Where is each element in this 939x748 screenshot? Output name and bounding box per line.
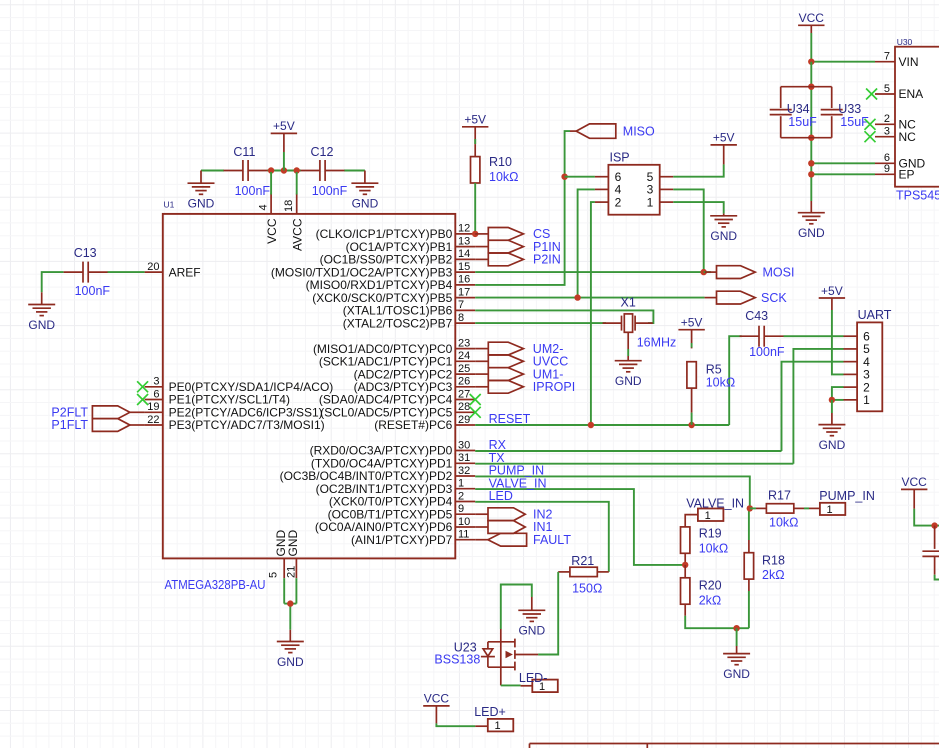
- U1 pin 3 PE0(: [137, 376, 333, 394]
- ground C11: [188, 171, 215, 211]
- port UM2-: [475, 342, 563, 356]
- wire R21 to drain: [538, 572, 570, 655]
- wire source to LED-: [501, 684, 521, 686]
- wire RESET: [475, 412, 729, 426]
- port FAULT: [475, 533, 571, 547]
- junction cap top: [808, 84, 814, 90]
- capacitor U33: [821, 87, 869, 138]
- svg-text:GND: GND: [286, 530, 300, 557]
- wire ISP1 to ground: [673, 202, 723, 214]
- svg-text:5: 5: [268, 572, 280, 578]
- wire VALVE_IN: [475, 476, 685, 565]
- power VCC (right): [901, 475, 927, 509]
- svg-text:1: 1: [827, 504, 833, 516]
- svg-text:3: 3: [884, 126, 890, 138]
- U1 pin 31 PD1: [311, 452, 475, 470]
- port MISO: [570, 124, 655, 138]
- wire +5V rail to C11/C12: [201, 170, 365, 172]
- port IN1: [475, 520, 552, 534]
- frame next sheet: [530, 744, 939, 748]
- svg-text:VCC: VCC: [424, 692, 450, 706]
- svg-text:P1FLT: P1FLT: [51, 418, 88, 432]
- U1 pin 28 PC5: [320, 401, 475, 419]
- ground UART: [818, 425, 845, 452]
- svg-text:R21: R21: [571, 554, 594, 568]
- IC U1 ATMEGA328PB-AU: [137, 194, 475, 593]
- svg-text:2: 2: [458, 490, 464, 502]
- svg-text:R10: R10: [489, 155, 512, 169]
- svg-text:26: 26: [458, 376, 470, 388]
- connector ISP: [595, 151, 673, 215]
- svg-text:22: 22: [147, 414, 159, 426]
- svg-text:GND: GND: [352, 197, 379, 211]
- wire EP pin9: [811, 173, 875, 175]
- wire UART5 to TX: [793, 349, 843, 464]
- junction MISO/ISP6: [561, 174, 567, 180]
- svg-text:GND: GND: [277, 655, 304, 669]
- svg-text:GND: GND: [723, 667, 750, 681]
- svg-text:13: 13: [458, 235, 470, 247]
- svg-text:VCC: VCC: [902, 475, 928, 489]
- wire R21 right: [597, 571, 609, 573]
- wire PB7 to crystal: [475, 322, 606, 324]
- svg-text:15uF: 15uF: [840, 115, 869, 129]
- transistor U23 BSS138: [434, 629, 538, 685]
- U1 pin 27 PC4: [319, 388, 475, 406]
- testpoint LED+: [474, 705, 513, 732]
- svg-text:NC: NC: [899, 130, 917, 144]
- junction U1 ground: [287, 600, 293, 606]
- wire ISP6: [565, 176, 595, 178]
- svg-text:20: 20: [147, 261, 159, 273]
- capacitor C43: [740, 309, 785, 359]
- testpoint PUMP_IN: [819, 489, 875, 516]
- wire MOSI stub: [704, 271, 711, 273]
- U1 pin 17 PB5: [312, 286, 475, 304]
- U1 pin 20 AREF: [145, 261, 201, 279]
- capacitor C11: [224, 145, 271, 198]
- svg-text:VALVE_IN: VALVE_IN: [686, 496, 744, 510]
- U1 pin 9 PD5: [328, 503, 476, 521]
- U1 pin 8 PB7: [343, 312, 475, 330]
- U1 pin 1 PD3: [316, 478, 476, 496]
- svg-text:17: 17: [458, 286, 470, 298]
- svg-text:C11: C11: [233, 145, 255, 159]
- svg-text:GND: GND: [819, 438, 846, 452]
- svg-text:LED: LED: [489, 489, 513, 503]
- wire R19 to R20: [684, 553, 686, 565]
- port P2IN: [475, 253, 561, 267]
- wire C43 to UART6: [784, 335, 844, 337]
- ground C12: [351, 171, 378, 211]
- svg-text:VIN: VIN: [899, 55, 919, 69]
- U1 pin 2 PD4: [329, 490, 475, 508]
- no-connect X pin27: [470, 394, 481, 405]
- svg-text:100nF: 100nF: [749, 345, 785, 359]
- svg-text:16: 16: [458, 274, 470, 286]
- junction RESET/R5: [688, 422, 694, 428]
- svg-text:UART: UART: [858, 308, 892, 322]
- svg-text:1: 1: [863, 393, 870, 407]
- svg-text:7: 7: [458, 299, 464, 311]
- port IPROPI: [475, 380, 575, 394]
- resistor R17: [750, 489, 799, 530]
- svg-text:MISO: MISO: [623, 124, 655, 138]
- U1 pin 19 PE2(: [145, 401, 323, 419]
- wire PUMP_IN: [475, 464, 750, 509]
- svg-text:3: 3: [153, 376, 159, 388]
- wire ISP2 to RESET: [591, 202, 595, 425]
- resistor R20: [681, 565, 722, 608]
- svg-text:VCC: VCC: [799, 11, 825, 25]
- wire TX: [475, 451, 793, 465]
- U1 pin 30 PD0: [310, 439, 476, 457]
- wire RESET to C43: [729, 336, 742, 425]
- svg-text:100nF: 100nF: [75, 284, 111, 298]
- svg-text:FAULT: FAULT: [533, 533, 571, 547]
- ground U23: [518, 610, 545, 637]
- svg-text:29: 29: [458, 414, 470, 426]
- svg-text:R20: R20: [699, 579, 722, 593]
- wire VCC to VIN: [811, 33, 875, 62]
- svg-text:6: 6: [153, 388, 159, 400]
- power +5V (UART): [819, 284, 845, 310]
- wire ground drop UART: [831, 400, 833, 425]
- svg-text:SCK: SCK: [761, 291, 787, 305]
- svg-text:(XTAL2/TOSC2)PB7: (XTAL2/TOSC2)PB7: [343, 316, 453, 330]
- U1 pin 10 PD6: [315, 516, 475, 534]
- ground ISP: [710, 214, 737, 244]
- junction pin18 rail: [294, 167, 300, 173]
- wire UART4 to RX: [782, 362, 844, 451]
- svg-text:16MHz: 16MHz: [637, 335, 677, 349]
- svg-text:2: 2: [615, 195, 622, 209]
- svg-text:GND: GND: [518, 624, 545, 638]
- svg-text:ATMEGA328PB-AU: ATMEGA328PB-AU: [165, 578, 266, 592]
- resistor R19: [681, 527, 729, 556]
- svg-text:28: 28: [458, 401, 470, 413]
- resistor R18: [744, 508, 785, 628]
- port P2FLT: [51, 406, 144, 420]
- port P1IN: [475, 240, 561, 254]
- svg-text:U33: U33: [838, 102, 861, 116]
- svg-text:GND: GND: [615, 374, 642, 388]
- wire R5 to RESET: [691, 388, 693, 425]
- ground C13: [28, 292, 55, 332]
- svg-text:GND: GND: [188, 197, 215, 211]
- port UM1-: [475, 367, 563, 381]
- svg-text:VCC: VCC: [265, 218, 279, 244]
- svg-text:14: 14: [458, 248, 470, 260]
- capacitor right edge: [922, 526, 939, 580]
- svg-text:PUMP_IN: PUMP_IN: [819, 489, 875, 503]
- no-connect X NC3: [865, 131, 876, 142]
- svg-text:C43: C43: [745, 309, 768, 323]
- wire PB6 to crystal: [475, 310, 653, 323]
- svg-text:25: 25: [458, 363, 470, 375]
- svg-text:EP: EP: [899, 168, 915, 182]
- U1 pin 29 PC6: [374, 414, 475, 432]
- svg-text:10kΩ: 10kΩ: [489, 170, 519, 184]
- svg-text:9: 9: [458, 503, 464, 515]
- svg-text:U1: U1: [164, 200, 175, 210]
- wire R20 to rail: [685, 604, 749, 628]
- svg-text:GND: GND: [798, 226, 825, 240]
- wire ISP5 to +5V: [673, 164, 723, 176]
- svg-text:27: 27: [458, 388, 470, 400]
- U1 value ATMEGA328PB-AU: [165, 578, 266, 592]
- svg-text:GND: GND: [710, 229, 737, 243]
- svg-text:X1: X1: [621, 295, 636, 309]
- wire rail ground drop: [736, 628, 738, 653]
- svg-text:+5V: +5V: [713, 131, 735, 145]
- junction MOSI/ISP3: [701, 269, 707, 275]
- svg-text:2: 2: [884, 113, 890, 125]
- svg-text:IPROPI: IPROPI: [533, 380, 575, 394]
- wire U1 ground: [284, 578, 296, 630]
- power VCC (TPS): [798, 11, 824, 33]
- port MOSI: [705, 265, 794, 279]
- connector UART: [844, 308, 892, 412]
- svg-text:100nF: 100nF: [235, 184, 271, 198]
- svg-text:1: 1: [494, 720, 500, 732]
- svg-text:ISP: ISP: [610, 151, 630, 165]
- U1 pin 5 GND: [268, 530, 289, 579]
- wire PB5 to SCK: [475, 297, 704, 299]
- ground TPS: [798, 201, 825, 240]
- svg-text:AREF: AREF: [169, 265, 201, 279]
- svg-text:R17: R17: [768, 489, 791, 503]
- svg-text:19: 19: [147, 401, 159, 413]
- svg-text:LED-: LED-: [519, 671, 547, 685]
- svg-text:8: 8: [458, 312, 464, 324]
- svg-text:24: 24: [458, 350, 470, 362]
- U1 pin 14 PB2: [320, 248, 476, 266]
- junction GND pin6: [808, 160, 814, 166]
- U1 pin 23 PC0: [313, 337, 475, 355]
- U1 pin 6 PE1(: [137, 388, 290, 406]
- wire VCC to LED+: [436, 723, 475, 726]
- wire RX: [475, 438, 781, 452]
- wire VCC main drop: [810, 62, 812, 201]
- svg-text:(RESET#)PC6: (RESET#)PC6: [374, 418, 452, 432]
- svg-text:11: 11: [458, 529, 469, 541]
- ground U1: [277, 630, 304, 669]
- wire cap bottom rail: [781, 137, 832, 139]
- wire UART2 to ground: [832, 387, 844, 400]
- svg-text:+5V: +5V: [681, 316, 703, 330]
- U1 pin 25 PC2: [354, 363, 476, 381]
- junction ground rail: [733, 625, 739, 631]
- no-connect X NC2: [865, 119, 876, 130]
- svg-text:15: 15: [458, 261, 470, 273]
- resistor R5: [687, 362, 735, 390]
- svg-text:LED+: LED+: [474, 705, 506, 719]
- svg-text:10kΩ: 10kΩ: [699, 542, 729, 556]
- svg-text:1: 1: [705, 510, 711, 522]
- testpoint LED-: [519, 671, 558, 693]
- wire C13 to ground: [42, 272, 64, 292]
- svg-text:31: 31: [458, 452, 470, 464]
- svg-text:2kΩ: 2kΩ: [699, 593, 722, 607]
- crystal X1: [603, 295, 677, 349]
- svg-text:(AIN1/PTCXY)PD7: (AIN1/PTCXY)PD7: [351, 533, 453, 547]
- svg-text:7: 7: [884, 51, 890, 63]
- wire R10 to pin12: [474, 183, 476, 234]
- U1 pin 24 PC1: [319, 350, 475, 368]
- wire cap top rail: [781, 86, 832, 88]
- svg-text:21: 21: [286, 566, 298, 578]
- svg-text:30: 30: [458, 439, 470, 451]
- svg-text:10kΩ: 10kΩ: [769, 516, 799, 530]
- U1 pin 11 PD7: [351, 529, 475, 547]
- wire pin4 to rail: [270, 172, 272, 195]
- svg-text:U34: U34: [787, 102, 810, 116]
- wire pin18 to rail: [296, 172, 298, 195]
- wire gate to ground: [501, 585, 532, 630]
- junction cap bottom: [808, 135, 814, 141]
- wire UART3 to +5V: [832, 310, 844, 374]
- U1 pin 18 AVCC: [283, 194, 304, 251]
- junction VIN: [808, 59, 814, 65]
- U1 pin 13 PB1: [346, 235, 476, 253]
- U1 pin 15 PB3: [271, 261, 475, 279]
- svg-text:MOSI: MOSI: [763, 265, 795, 279]
- junction VCC right: [931, 522, 937, 528]
- resistor R21: [570, 554, 602, 595]
- power VCC (LED+): [423, 692, 449, 724]
- junction pin4 rail: [268, 167, 274, 173]
- svg-text:10: 10: [458, 516, 470, 528]
- capacitor U34: [770, 87, 817, 138]
- U1 pin 7 PB6: [343, 299, 475, 317]
- junction +5V rail: [281, 167, 287, 173]
- U1 pin 22 PE3(: [145, 414, 325, 432]
- U1 pin 32 PD2: [280, 465, 476, 483]
- wire GND pin6: [811, 162, 875, 164]
- U1 pin 26 PC3: [354, 376, 476, 394]
- junction R10/pin12: [472, 231, 478, 237]
- wire ISP3 to MOSI: [673, 189, 703, 272]
- junction VALVE divider: [682, 562, 688, 568]
- junction PUMP node: [747, 505, 753, 511]
- power +5V (R10): [462, 113, 488, 145]
- svg-text:+5V: +5V: [464, 113, 486, 127]
- junction EP pin9: [808, 171, 814, 177]
- svg-text:5: 5: [884, 83, 890, 95]
- wire VCC right: [914, 509, 939, 526]
- svg-text:AVCC: AVCC: [290, 218, 304, 251]
- ground X1: [615, 361, 642, 388]
- testpoint VALVE_IN: [685, 496, 744, 527]
- svg-text:RESET: RESET: [489, 412, 531, 426]
- wire LED: [475, 489, 609, 572]
- svg-text:R5: R5: [706, 363, 722, 377]
- svg-text:C12: C12: [311, 145, 334, 159]
- port SCK: [705, 291, 788, 305]
- svg-text:2kΩ: 2kΩ: [762, 568, 785, 582]
- power +5V (R5): [678, 316, 704, 349]
- junction SCK/ISP4: [574, 294, 580, 300]
- power +5V (ISP): [711, 131, 737, 165]
- svg-text:9: 9: [884, 163, 890, 175]
- wire R17 to PUMP_IN TP: [794, 507, 820, 509]
- junction UART ground: [829, 397, 835, 403]
- svg-text:23: 23: [458, 337, 470, 349]
- svg-text:1: 1: [647, 195, 654, 209]
- svg-text:32: 32: [458, 465, 470, 477]
- IC U30 TPS5450: [875, 37, 939, 202]
- svg-text:R19: R19: [699, 527, 722, 541]
- svg-text:TPS5450: TPS5450: [896, 189, 939, 203]
- capacitor C13: [64, 246, 111, 298]
- power +5V (top): [271, 119, 297, 170]
- no-connect X ENA: [866, 89, 877, 100]
- no-connect X pin28: [470, 407, 481, 418]
- ground divider: [723, 654, 750, 681]
- svg-text:+5V: +5V: [821, 284, 843, 298]
- svg-text:U30: U30: [897, 37, 913, 47]
- port P1FLT: [51, 418, 144, 432]
- svg-text:12: 12: [458, 223, 470, 235]
- U1 pin 16 PB4: [306, 274, 476, 292]
- svg-text:R18: R18: [762, 554, 785, 568]
- svg-text:100nF: 100nF: [312, 184, 348, 198]
- svg-text:4: 4: [258, 204, 270, 210]
- wire MISO net: [475, 131, 570, 285]
- wire ISP4 to SCK: [578, 189, 595, 297]
- U1 pin 21 GND: [286, 530, 301, 579]
- U1 designator: [164, 200, 175, 210]
- svg-text:+5V: +5V: [273, 119, 295, 133]
- port IN2: [475, 507, 552, 521]
- port UVCC: [475, 355, 568, 369]
- svg-text:150Ω: 150Ω: [572, 581, 602, 595]
- svg-text:15uF: 15uF: [788, 115, 817, 129]
- capacitor C12: [301, 145, 348, 198]
- svg-text:ENA: ENA: [899, 87, 924, 101]
- wire crystal to ground: [627, 332, 629, 360]
- U1 pin 4 VCC: [258, 194, 279, 244]
- svg-text:PE3(PTCY/ADC7/T3/MOSI1): PE3(PTCY/ADC7/T3/MOSI1): [169, 418, 325, 432]
- wire PB3 to MOSI: [475, 271, 704, 273]
- wire UART1 to ground: [832, 399, 844, 401]
- svg-text:BSS138: BSS138: [434, 652, 480, 666]
- IC U1 body: [163, 214, 456, 559]
- svg-text:GND: GND: [28, 318, 55, 332]
- svg-text:10kΩ: 10kΩ: [706, 375, 736, 389]
- port CS: [475, 227, 550, 241]
- wire C13 to AREF: [108, 271, 145, 273]
- U1 pin 12 PB0: [316, 223, 476, 241]
- resistor R10: [471, 139, 519, 184]
- svg-text:C13: C13: [74, 246, 97, 260]
- svg-text:18: 18: [283, 200, 295, 212]
- svg-text:1: 1: [458, 478, 464, 490]
- svg-text:P2IN: P2IN: [533, 253, 561, 267]
- junction RESET/ISP2: [588, 422, 594, 428]
